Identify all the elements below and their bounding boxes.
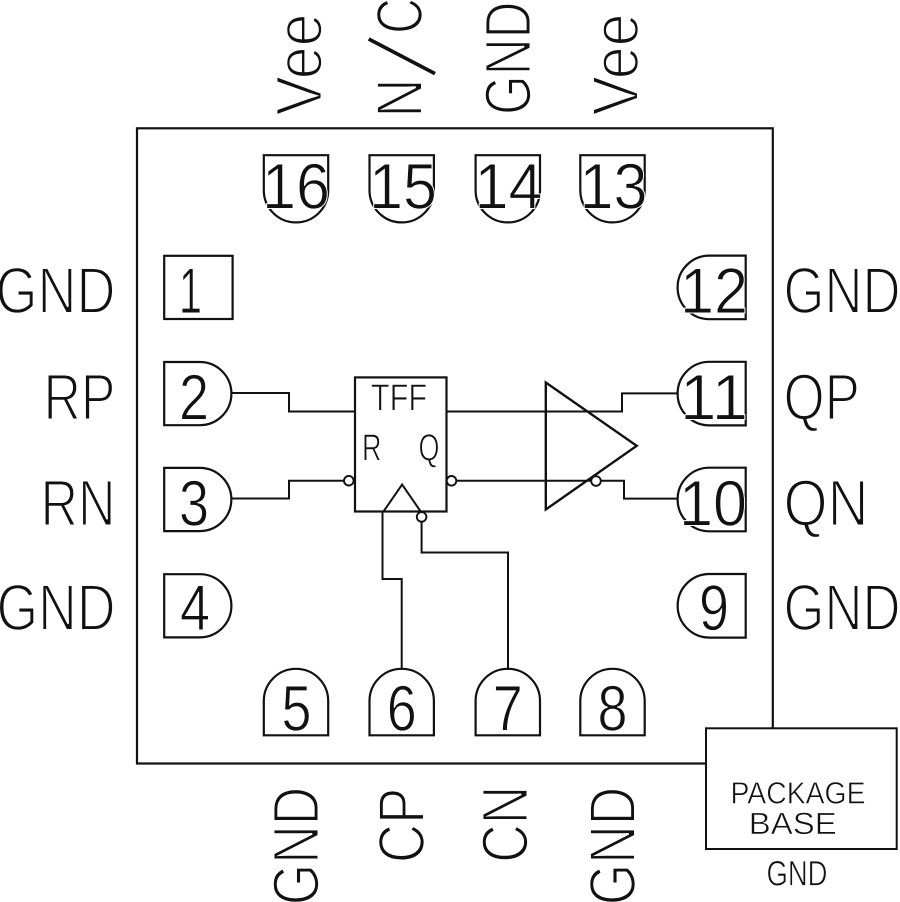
pin 4 — [164, 574, 231, 637]
svg-text:14: 14 — [475, 149, 543, 222]
svg-text:TFF: TFF — [371, 378, 428, 420]
svg-text:13: 13 — [580, 149, 648, 222]
svg-text:N: N — [363, 79, 436, 118]
svg-text:Q: Q — [419, 427, 440, 469]
pin 16 — [264, 155, 328, 222]
svg-text:Vee: Vee — [579, 14, 652, 116]
svg-text:11: 11 — [680, 361, 748, 434]
Qbar bottom output bubble — [417, 512, 427, 522]
svg-text:GND: GND — [471, 2, 544, 116]
svg-text:10: 10 — [679, 467, 747, 540]
pin 12 — [678, 256, 746, 320]
pin 14 — [476, 155, 540, 222]
pin 6 — [370, 669, 434, 736]
svg-text:R: R — [362, 427, 382, 469]
Q output bubble — [447, 476, 457, 486]
pin 2 — [164, 362, 231, 425]
svg-text:GND: GND — [260, 787, 333, 902]
svg-text:QN: QN — [784, 467, 869, 540]
wire RP pin2 to TFF — [231, 393, 355, 412]
svg-text:BASE: BASE — [749, 806, 837, 841]
pin 13 — [580, 155, 644, 222]
flip-flop U1 TFF block — [355, 377, 447, 511]
package outline — [137, 128, 773, 763]
svg-text:CP: CP — [365, 788, 438, 864]
pin 11 — [678, 362, 746, 426]
svg-text:GND: GND — [0, 254, 116, 327]
pin 3 — [164, 468, 231, 531]
R input bubble — [344, 476, 354, 486]
svg-text:RP: RP — [44, 361, 116, 434]
wire TFF Q out to buffer and pin 11 — [447, 393, 679, 411]
svg-text:RN: RN — [41, 467, 116, 540]
wire RN pin3 to R bubble — [231, 481, 344, 499]
pin 7 — [476, 669, 540, 736]
pin 9 — [678, 574, 746, 638]
svg-text:C: C — [363, 0, 436, 34]
svg-text:CN: CN — [469, 786, 542, 863]
svg-text:GND: GND — [784, 254, 900, 327]
svg-text:12: 12 — [680, 254, 748, 327]
pin 1 — [164, 256, 232, 319]
package base box — [706, 728, 897, 849]
output buffer amplifier — [546, 383, 637, 510]
clock input triangle — [384, 485, 421, 512]
svg-text:6: 6 — [387, 672, 417, 745]
svg-text:1: 1 — [179, 254, 202, 327]
wire bottom bubble to pin 7 CN — [422, 517, 508, 670]
svg-text:15: 15 — [369, 149, 437, 222]
pin 5 — [264, 669, 328, 736]
pin 10 — [678, 468, 746, 532]
svg-text:GND: GND — [784, 571, 900, 644]
wire clock triangle to pin 6 CP — [383, 512, 402, 671]
svg-text:5: 5 — [282, 672, 312, 745]
svg-text:8: 8 — [598, 672, 628, 745]
svg-text:GND: GND — [0, 571, 116, 644]
svg-text:2: 2 — [179, 361, 209, 434]
svg-text:7: 7 — [493, 672, 523, 745]
wire Qbar out to buffer bubble and pin 10 — [452, 481, 679, 499]
svg-text:3: 3 — [179, 467, 209, 540]
svg-text:QP: QP — [784, 361, 861, 434]
pin 8 — [580, 669, 644, 736]
pin 15 — [370, 155, 434, 222]
svg-text:16: 16 — [262, 149, 330, 222]
svg-text:GND: GND — [767, 853, 828, 893]
buffer inverting output bubble — [591, 476, 601, 486]
svg-text:Vee: Vee — [263, 14, 336, 116]
svg-text:GND: GND — [576, 787, 649, 902]
svg-text:4: 4 — [180, 571, 210, 644]
svg-text:9: 9 — [699, 571, 729, 644]
